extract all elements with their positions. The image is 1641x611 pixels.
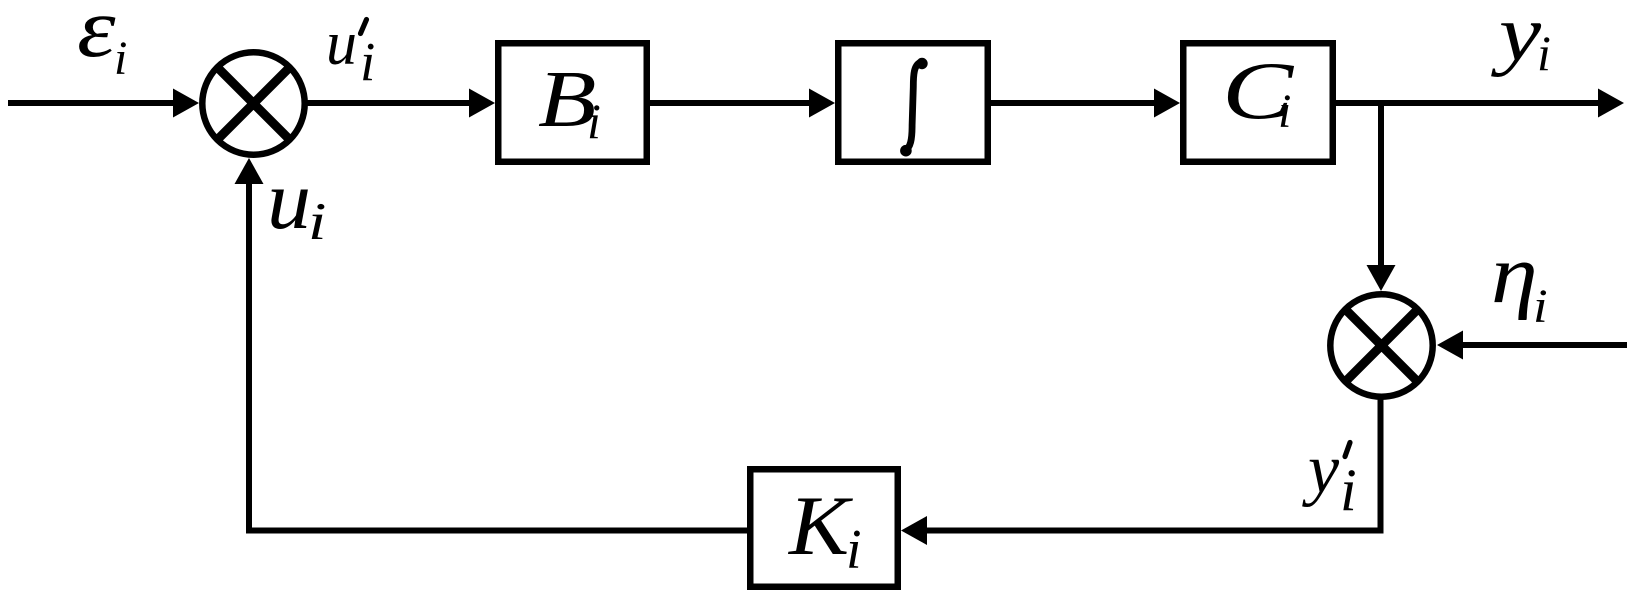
svg-text:y: y (1302, 431, 1340, 508)
svg-text:i: i (1278, 85, 1291, 138)
svg-text:i: i (114, 32, 127, 85)
svg-text:i: i (587, 93, 601, 149)
svg-text:i: i (308, 192, 326, 250)
svg-text:i: i (846, 519, 862, 581)
svg-text:i: i (1537, 25, 1551, 81)
svg-text:i: i (360, 31, 375, 92)
svg-text:i: i (1533, 279, 1548, 332)
svg-text:i: i (1340, 457, 1357, 523)
svg-text:u: u (267, 153, 311, 247)
svg-text:y: y (1490, 0, 1541, 77)
svg-text:η: η (1491, 229, 1538, 321)
svg-text:K: K (787, 478, 854, 572)
svg-text:u: u (326, 10, 357, 78)
svg-text:ε: ε (77, 0, 116, 75)
